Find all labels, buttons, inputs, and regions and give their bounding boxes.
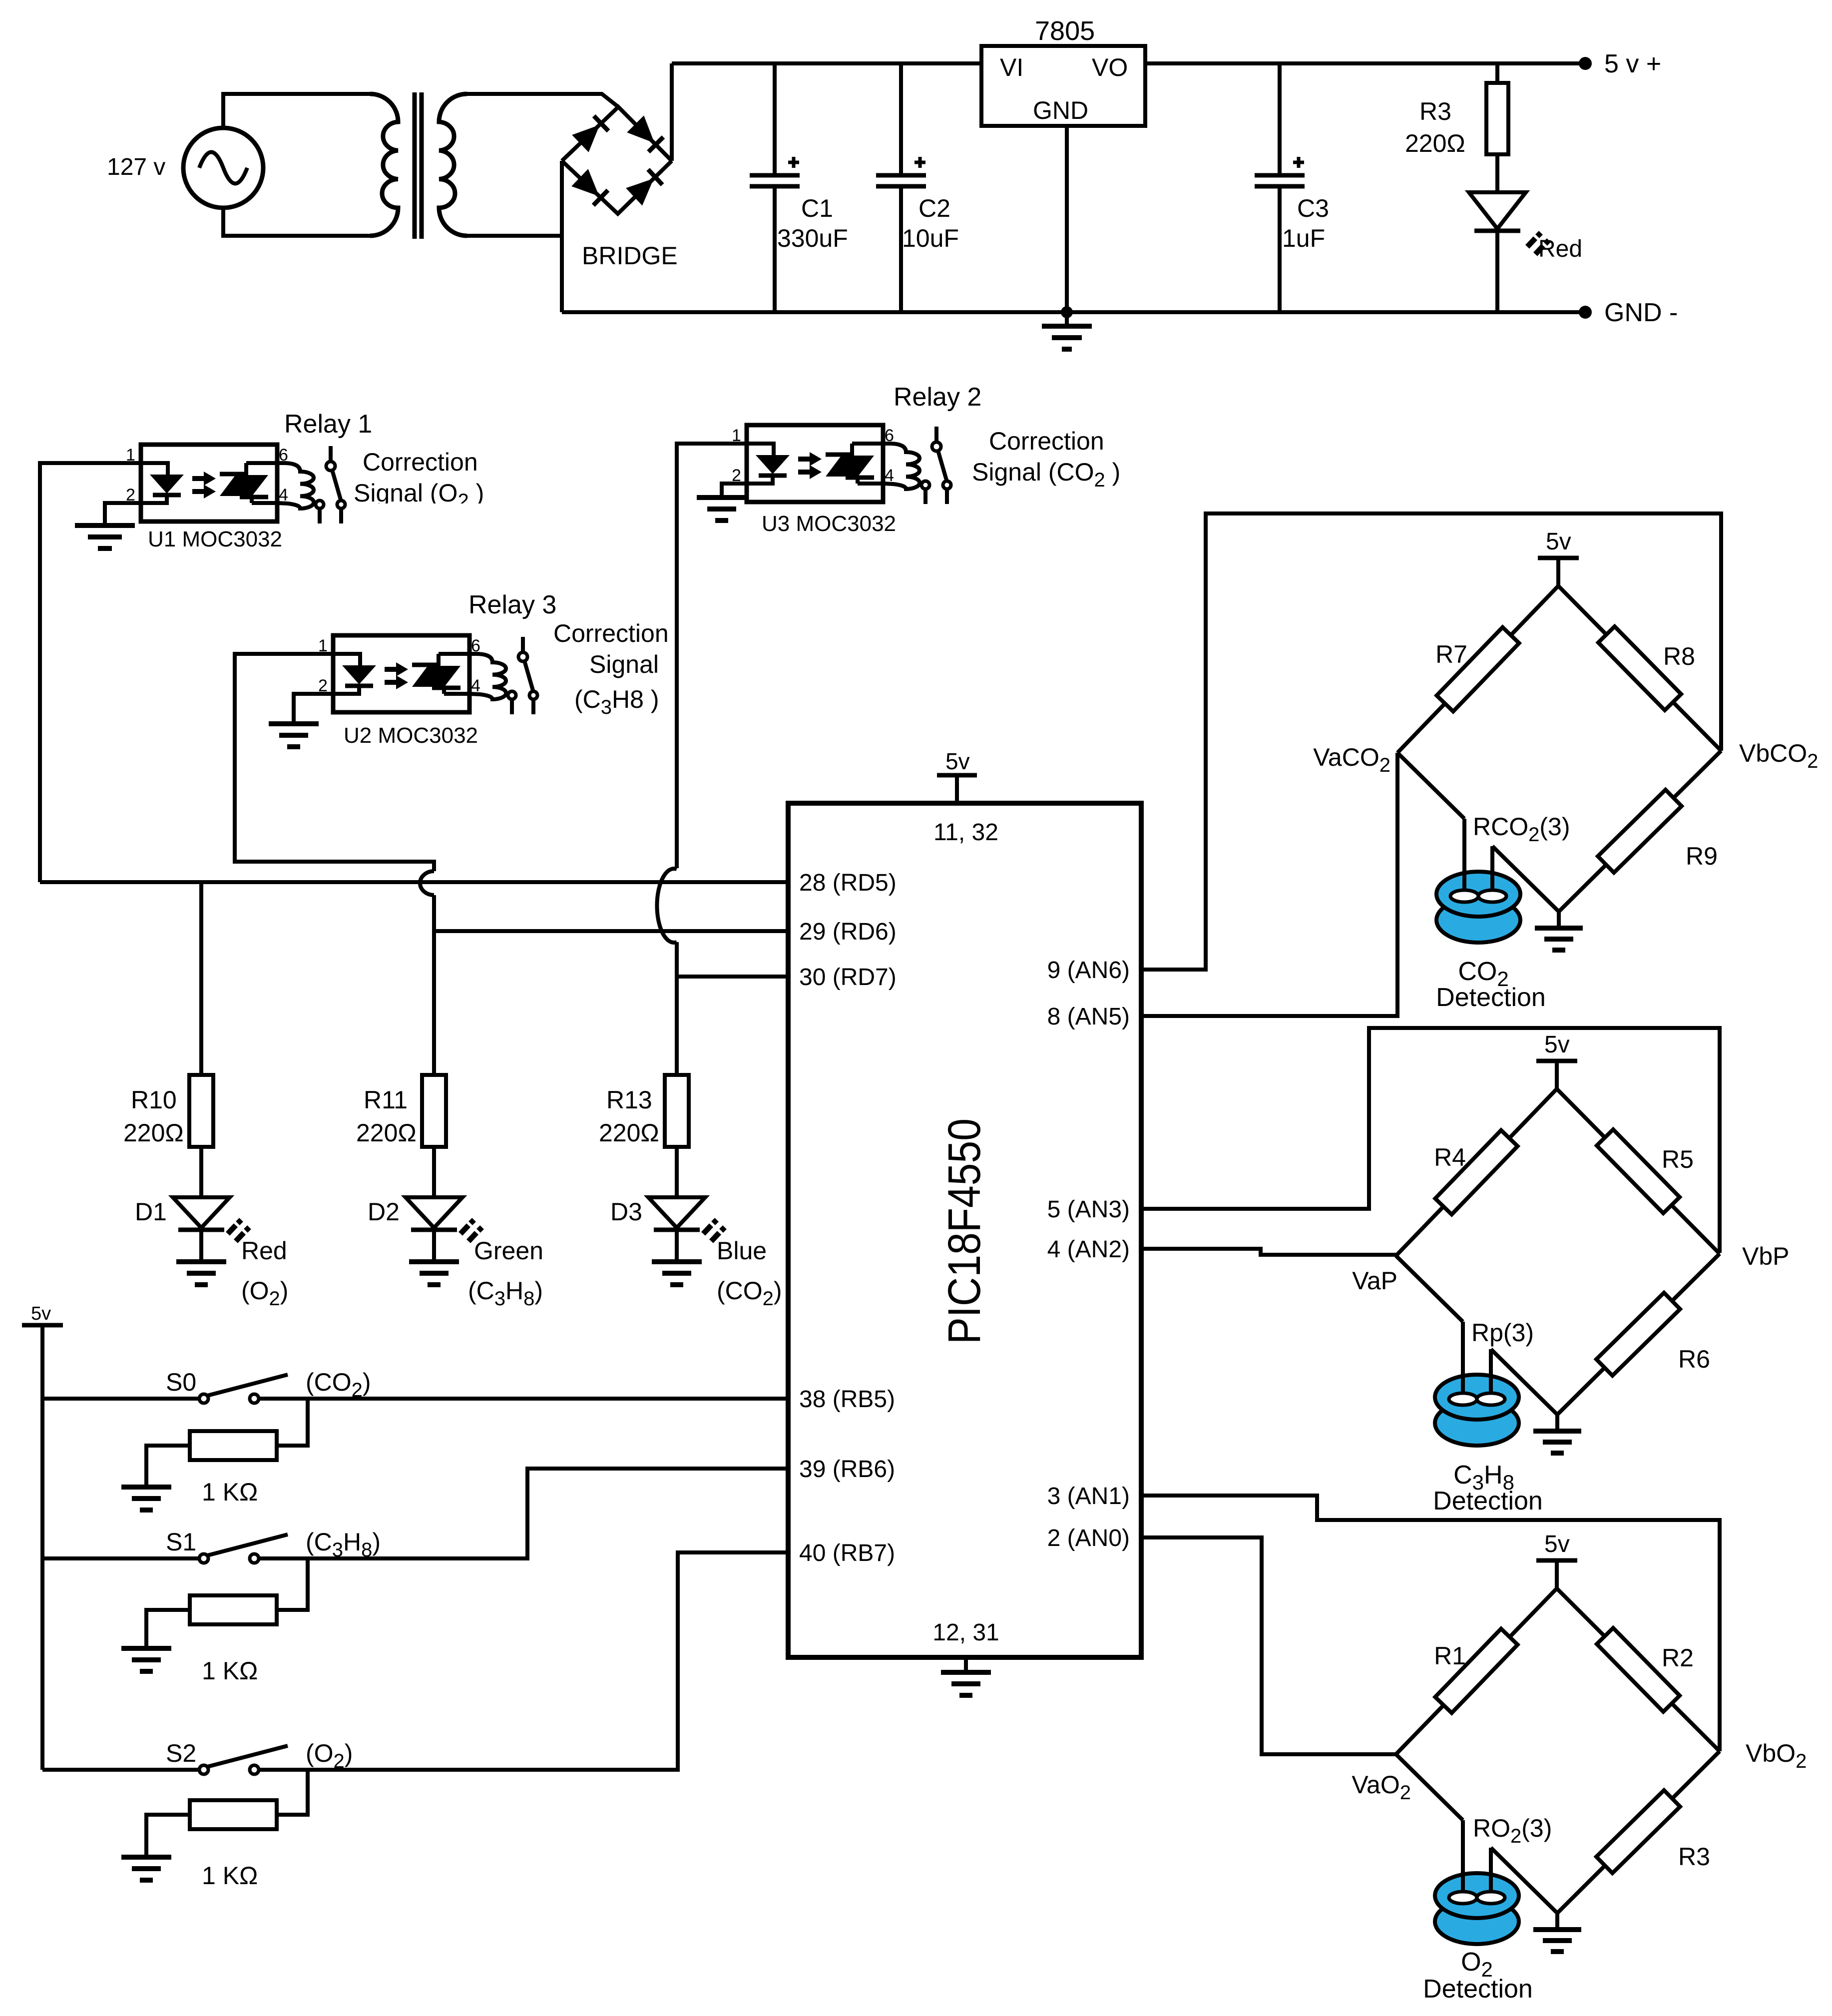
ground symbol S0 [121, 1487, 171, 1510]
resistor R6 [1596, 1293, 1680, 1376]
ground symbol S2 [121, 1857, 171, 1880]
ground symbol D2 [409, 1262, 459, 1285]
svg-text:9 (AN6): 9 (AN6) [1047, 957, 1130, 984]
svg-text:D3: D3 [610, 1198, 642, 1226]
bridge diode D-BL [571, 169, 609, 206]
5v supply bridge C3H8 [1536, 1031, 1577, 1089]
wire secondary top to bridge [467, 94, 618, 107]
transformer T1 core [415, 92, 422, 239]
resistor R7 [1436, 627, 1519, 712]
svg-text:1 KΩ: 1 KΩ [202, 1657, 258, 1685]
svg-text:5 (AN3): 5 (AN3) [1047, 1196, 1130, 1223]
optocoupler U2 box [333, 635, 469, 712]
svg-text:5v: 5v [31, 1303, 51, 1324]
wire RD6 vertical below hop to pin29 [434, 895, 788, 931]
U3 internal LED [747, 444, 790, 484]
resistor R3 [1486, 63, 1508, 192]
resistor 1K S1 [190, 1595, 277, 1624]
U3 light arrows [798, 452, 822, 479]
svg-text:S1: S1 [166, 1528, 196, 1556]
LED D1 [173, 1197, 249, 1262]
svg-text:S0: S0 [166, 1368, 196, 1396]
5v supply above chip [937, 748, 977, 803]
ground symbol S1 [121, 1648, 171, 1671]
svg-text:BRIDGE: BRIDGE [582, 242, 678, 270]
svg-text:R2: R2 [1662, 1644, 1694, 1672]
svg-text:U2 MOC3032: U2 MOC3032 [344, 723, 478, 748]
wire secondary bottom to bridge left corner [467, 234, 562, 238]
5v supply left rail [22, 1303, 63, 1770]
svg-text:28 (RD5): 28 (RD5) [799, 870, 897, 896]
svg-text:Detection: Detection [1423, 1975, 1533, 2004]
terminal GND- [1579, 306, 1592, 319]
resistor R13 [665, 1075, 689, 1147]
optocoupler U3 box [747, 425, 883, 502]
U1 internal triac [220, 463, 277, 503]
sensor holes RCO2 [1450, 890, 1506, 902]
svg-text:C2: C2 [918, 194, 950, 222]
svg-text:Correction: Correction [553, 619, 669, 647]
relay 1 switch [316, 446, 345, 523]
svg-text:Correction: Correction [989, 427, 1104, 455]
wire bridge left corner down to GND rail [560, 161, 564, 312]
wire R10 branch from RD5 [199, 882, 203, 1075]
svg-text:4 (AN2): 4 (AN2) [1047, 1236, 1130, 1263]
resistor R3 bridge [1596, 1790, 1680, 1873]
bridge C3H8 upper edges [1396, 1089, 1720, 1256]
resistor R2 [1597, 1628, 1680, 1712]
svg-text:D2: D2 [368, 1198, 400, 1226]
ground symbol D3 [652, 1262, 702, 1285]
svg-text:Detection: Detection [1436, 983, 1546, 1012]
svg-text:VO: VO [1092, 53, 1128, 81]
svg-text:R1: R1 [1434, 1642, 1466, 1670]
ground symbol bridge C3H8 [1533, 1415, 1581, 1453]
svg-text:220Ω: 220Ω [356, 1119, 417, 1147]
wire R11 to D2 [432, 1147, 436, 1197]
svg-text:5 v +: 5 v + [1604, 49, 1661, 78]
bridge diode D-TR [627, 115, 664, 153]
wire S0 resistor to ground [146, 1446, 190, 1487]
LED power indicator [1469, 192, 1549, 312]
chip ground 12,31 [941, 1657, 991, 1695]
svg-text:C3: C3 [1297, 194, 1329, 222]
bridge C3H8 lower right edge [1557, 1254, 1720, 1415]
svg-text:GND -: GND - [1604, 298, 1678, 327]
wire +DC rail to 7805 VI [672, 61, 981, 65]
U1 internal LED [141, 463, 184, 503]
LED D3 [648, 1197, 725, 1262]
svg-text:1uF: 1uF [1282, 224, 1325, 252]
hop arc RD7 over RD5 and RD6 [657, 869, 677, 943]
capacitor C2 [876, 63, 926, 312]
svg-text:U3 MOC3032: U3 MOC3032 [762, 511, 896, 536]
AC source V1 127v [183, 128, 263, 208]
wire S0 pulldown drop [277, 1399, 308, 1446]
microcontroller U5 PIC18F4550 box [788, 803, 1141, 1657]
5v supply bridge O2 [1536, 1531, 1577, 1588]
voltage regulator U4 7805 [981, 46, 1145, 126]
svg-text:Rp(3): Rp(3) [1471, 1319, 1534, 1347]
svg-text:D1: D1 [135, 1198, 167, 1226]
svg-text:VI: VI [1000, 53, 1023, 81]
wire U1 pin1 to RD5 net vertical [40, 463, 141, 882]
sensor holes RO2 [1449, 1892, 1505, 1904]
svg-text:3 (AN1): 3 (AN1) [1047, 1483, 1130, 1510]
gas sensor RCO2 cylinder [1436, 872, 1520, 943]
wire AN5 pin 8 to VaCO2 [1141, 753, 1397, 1016]
U3 internal triac [826, 444, 883, 484]
capacitor C3 [1255, 63, 1305, 312]
svg-text:220Ω: 220Ω [1405, 129, 1465, 157]
svg-text:R4: R4 [1434, 1143, 1466, 1171]
svg-text:2 (AN0): 2 (AN0) [1047, 1525, 1130, 1551]
svg-text:Detection: Detection [1433, 1487, 1543, 1515]
svg-text:R7: R7 [1435, 640, 1467, 668]
svg-text:7805: 7805 [1035, 16, 1095, 46]
sensor lead right RO2 [1489, 1848, 1493, 1897]
wire AC source bottom to transformer primary [223, 208, 370, 236]
resistor 1K S0 [190, 1431, 277, 1460]
svg-text:38 (RB5): 38 (RB5) [799, 1386, 895, 1413]
sensor lead right RCO2 [1490, 846, 1494, 895]
bridge diode D-TL [572, 115, 609, 152]
bridge diode D-BR [626, 168, 663, 206]
svg-text:5v: 5v [1544, 1031, 1570, 1058]
relay 2 switch [921, 427, 951, 504]
sensor lead left Rp [1461, 1322, 1465, 1398]
ground symbol D1 [176, 1262, 226, 1285]
resistor R8 [1598, 626, 1681, 710]
svg-text:U1 MOC3032: U1 MOC3032 [148, 527, 282, 551]
svg-text:R3: R3 [1678, 1843, 1710, 1871]
svg-text:Relay 3: Relay 3 [468, 590, 556, 619]
bridge C3H8 lower left edge with sensor gap [1396, 1256, 1557, 1415]
wire R13 branch from RD7 [675, 977, 679, 1075]
LED D2 [406, 1197, 482, 1262]
switch S1 [42, 1534, 288, 1563]
wire U2 pin2 to ground [294, 694, 360, 724]
svg-text:R5: R5 [1662, 1145, 1694, 1173]
hop arc RD6 over RD5 [420, 871, 434, 895]
svg-text:Correction: Correction [363, 448, 478, 476]
wire RD7 vertical below hop to pin30 [677, 942, 788, 977]
transformer T1 secondary winding [439, 94, 467, 236]
wire U1 pin2 to ground [105, 503, 168, 525]
svg-text:R8: R8 [1663, 642, 1695, 670]
svg-text:Green: Green [474, 1237, 543, 1265]
capacitor C1 [750, 63, 800, 312]
svg-text:R11: R11 [364, 1086, 408, 1114]
svg-text:10uF: 10uF [902, 224, 959, 252]
svg-text:30 (RD7): 30 (RD7) [799, 964, 897, 991]
svg-text:R6: R6 [1678, 1345, 1710, 1373]
svg-text:PIC18F4550: PIC18F4550 [939, 1118, 990, 1344]
wire S2 to pin 40 [259, 1552, 788, 1770]
wire S0 to pin 38 [259, 1397, 788, 1401]
relay 3 switch [508, 637, 537, 714]
wire AN2 pin 4 to VaP [1141, 1249, 1396, 1255]
svg-text:R10: R10 [131, 1086, 177, 1114]
wire RD5 net pin 28 [40, 880, 788, 884]
svg-text:S2: S2 [166, 1739, 196, 1767]
sensor lead right Rp [1489, 1349, 1493, 1398]
wire U2 pin1 to RD6 net [235, 654, 434, 871]
gas sensor Rp cylinder [1435, 1375, 1519, 1446]
bridge CO2 lower left edge with sensor gap [1397, 753, 1559, 912]
svg-text:330uF: 330uF [777, 224, 848, 252]
optocoupler U1 box [141, 445, 277, 521]
ground symbol U1 [75, 525, 135, 548]
svg-text:VbP: VbP [1742, 1242, 1790, 1270]
transformer T1 primary winding [370, 94, 398, 236]
svg-text:12, 31: 12, 31 [932, 1619, 999, 1646]
svg-text:R3: R3 [1419, 97, 1451, 125]
ground symbol U3 [697, 498, 747, 520]
wire GND rail bottom [562, 310, 1585, 314]
wire S1 to pin 39 [259, 1469, 788, 1558]
relay 2 coil [883, 444, 919, 489]
svg-text:2: 2 [732, 466, 741, 485]
wire U3 pin2 to ground [722, 484, 774, 498]
bridge rectifier diamond [562, 107, 672, 214]
resistor 1K S2 [190, 1800, 277, 1829]
svg-text:Red: Red [1538, 236, 1582, 262]
relay 3 coil [469, 654, 506, 699]
U1 light arrows [192, 472, 216, 499]
resistor R9 [1598, 790, 1682, 873]
svg-text:1 KΩ: 1 KΩ [202, 1862, 258, 1890]
resistor R11 [422, 1075, 446, 1147]
wire 7805 VO to 5v+ terminal [1145, 61, 1585, 65]
svg-text:R13: R13 [606, 1086, 652, 1114]
wire AN3 pin 5 to VbP [1141, 1028, 1720, 1253]
svg-text:Relay 2: Relay 2 [894, 383, 981, 412]
U2 light arrows [385, 662, 408, 689]
svg-text:1: 1 [732, 426, 741, 445]
svg-text:5v: 5v [1546, 528, 1571, 555]
terminal 5v+ [1579, 57, 1592, 70]
svg-text:1 KΩ: 1 KΩ [202, 1478, 258, 1506]
wire R13 to D3 [675, 1147, 679, 1197]
bridge O2 lower right edge [1557, 1751, 1720, 1913]
bridge O2 upper edges [1396, 1588, 1720, 1754]
svg-text:Signal: Signal [589, 650, 659, 678]
resistor R10 [189, 1075, 213, 1147]
U2 internal triac [412, 654, 469, 694]
ground symbol U2 [269, 724, 319, 747]
junction dot GND node [1061, 306, 1073, 318]
resistor R5 [1597, 1129, 1680, 1213]
svg-text:1: 1 [318, 636, 328, 655]
wire S1 pulldown drop [277, 1558, 308, 1610]
svg-text:Red: Red [241, 1237, 287, 1265]
resistor R1 [1435, 1629, 1517, 1713]
svg-text:5v: 5v [1544, 1531, 1570, 1557]
switch S2 [42, 1746, 288, 1774]
wire AC source top to transformer primary [223, 94, 370, 128]
svg-text:39 (RB6): 39 (RB6) [799, 1456, 895, 1483]
svg-text:11, 32: 11, 32 [933, 819, 998, 846]
svg-text:127 v: 127 v [107, 154, 165, 180]
ground symbol bridge CO2 [1535, 912, 1583, 950]
resistor R4 [1435, 1130, 1517, 1215]
wire AN1 pin 3 to VbO2 [1141, 1496, 1720, 1751]
wire S1 resistor to ground [146, 1610, 190, 1648]
bridge CO2 lower right edge [1559, 751, 1721, 912]
wire S2 resistor to ground [146, 1815, 190, 1857]
svg-text:220Ω: 220Ω [599, 1119, 659, 1147]
wire 7805 GND pin down [1065, 126, 1069, 326]
svg-text:40 (RB7): 40 (RB7) [799, 1540, 895, 1566]
wire AN0 pin 2 to VaO2 [1141, 1537, 1396, 1754]
sensor lead left RO2 [1461, 1820, 1465, 1897]
svg-text:C1: C1 [801, 194, 833, 222]
svg-text:29 (RD6): 29 (RD6) [799, 919, 897, 945]
switch S0 [42, 1375, 288, 1403]
wire R11 branch from RD6 [432, 931, 436, 1075]
wire U3 pin1 to RD7 net vertical [677, 444, 747, 868]
ground symbol under 7805 [1042, 326, 1092, 349]
sensor lead left RCO2 [1462, 819, 1466, 895]
svg-text:R9: R9 [1686, 842, 1718, 870]
svg-text:5v: 5v [945, 748, 970, 774]
svg-text:2: 2 [126, 486, 135, 504]
relay 1 coil [277, 463, 314, 508]
wire bridge right corner up to +DC rail [670, 63, 674, 161]
gas sensor RO2 cylinder [1435, 1873, 1519, 1944]
svg-text:VaP: VaP [1352, 1267, 1397, 1295]
svg-text:8 (AN5): 8 (AN5) [1047, 1004, 1130, 1030]
sensor holes Rp [1449, 1393, 1505, 1405]
bridge O2 lower left edge with sensor gap [1396, 1754, 1557, 1913]
wire S2 pulldown drop [277, 1770, 308, 1815]
5v supply bridge CO2 [1538, 528, 1579, 586]
bridge CO2 upper edges [1397, 586, 1721, 753]
ground symbol bridge O2 [1533, 1913, 1581, 1952]
svg-text:Blue: Blue [717, 1237, 767, 1265]
wire AN6 pin 9 to VbCO2 [1141, 513, 1721, 970]
wire R10 to D1 [199, 1147, 203, 1197]
svg-text:220Ω: 220Ω [123, 1119, 184, 1147]
svg-text:Relay 1: Relay 1 [284, 410, 372, 439]
svg-text:2: 2 [318, 676, 328, 695]
svg-text:1: 1 [126, 446, 135, 465]
svg-text:GND: GND [1033, 96, 1088, 124]
U2 internal LED [333, 654, 376, 694]
